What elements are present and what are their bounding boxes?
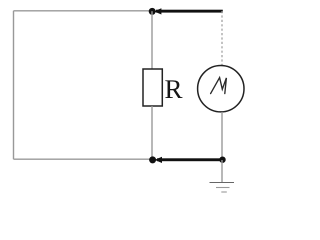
wire: node C down to ground bbox=[221, 160, 223, 183]
node C (bottom-right junction dot) bbox=[219, 157, 225, 163]
wire: right vertical from top thick wire to motor top bbox=[221, 11, 223, 65]
wire: top-left horizontal from loop corner to node A bbox=[14, 10, 153, 12]
wire: top thick feed to motor bbox=[156, 10, 223, 13]
arrowhead on bottom thick wire (pointing left into node B) bbox=[155, 157, 162, 163]
wire: bottom-left horizontal from loop corner to node B bbox=[14, 158, 153, 160]
wire: from resistor bottom down to node B bbox=[151, 106, 153, 160]
wire: motor bottom to node C bbox=[221, 112, 223, 160]
arrowhead on top thick wire (pointing left into node A) bbox=[154, 8, 161, 14]
ground (bottom bar) bbox=[221, 191, 227, 193]
wire: bottom thick return from motor to node B bbox=[157, 158, 223, 161]
node A (top junction dot) bbox=[149, 8, 156, 15]
wire: from node A down to resistor top bbox=[151, 11, 153, 69]
resistor R (rectangle body) bbox=[143, 69, 162, 106]
label R (resistor value label) bbox=[165, 80, 182, 98]
motor U1 (circle) bbox=[198, 66, 244, 112]
label M (motor symbol letter) bbox=[211, 78, 227, 94]
wire: left vertical side of loop bbox=[13, 11, 15, 159]
ground (top bar) bbox=[210, 182, 235, 184]
ground (middle bar) bbox=[216, 187, 230, 189]
node B (bottom-left junction dot) bbox=[149, 156, 156, 163]
